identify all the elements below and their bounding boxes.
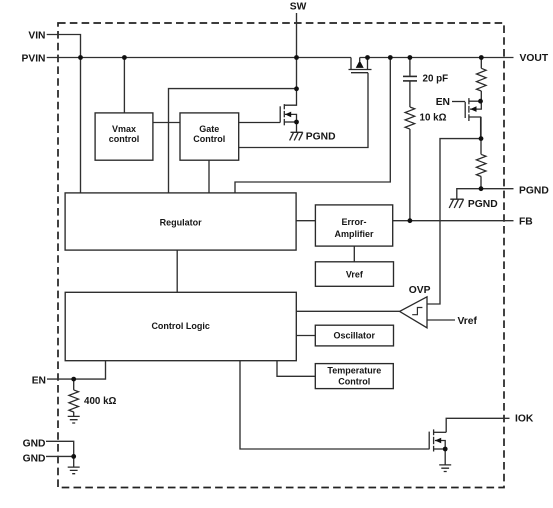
svg-text:VIN: VIN: [28, 31, 45, 42]
svg-text:PGND: PGND: [306, 132, 336, 143]
svg-text:Regulator: Regulator: [160, 218, 203, 228]
svg-text:Gate: Gate: [199, 124, 219, 134]
svg-text:VOUT: VOUT: [520, 53, 549, 64]
svg-text:PGND: PGND: [468, 199, 498, 210]
svg-text:PVIN: PVIN: [21, 53, 45, 64]
svg-text:EN: EN: [32, 375, 46, 386]
svg-text:GND: GND: [23, 453, 46, 464]
svg-text:OVP: OVP: [409, 285, 431, 296]
svg-text:400 kΩ: 400 kΩ: [84, 396, 117, 407]
svg-text:SW: SW: [290, 2, 307, 13]
svg-text:Control: Control: [338, 376, 370, 386]
svg-text:EN: EN: [436, 97, 450, 108]
svg-text:Amplifier: Amplifier: [334, 229, 374, 239]
svg-text:20 pF: 20 pF: [423, 74, 449, 85]
svg-text:Vref: Vref: [346, 270, 364, 280]
svg-text:Control Logic: Control Logic: [151, 321, 210, 331]
svg-text:Vref: Vref: [458, 316, 478, 327]
svg-text:control: control: [109, 134, 140, 144]
svg-text:Error-: Error-: [341, 217, 366, 227]
svg-text:GND: GND: [23, 438, 46, 449]
svg-text:Control: Control: [193, 134, 225, 144]
svg-text:Oscillator: Oscillator: [333, 331, 375, 341]
svg-text:IOK: IOK: [515, 413, 534, 424]
svg-text:FB: FB: [519, 216, 533, 227]
svg-text:Temperature: Temperature: [327, 365, 381, 375]
svg-text:PGND: PGND: [519, 185, 549, 196]
svg-text:Vmax: Vmax: [112, 124, 136, 134]
svg-text:10 kΩ: 10 kΩ: [420, 112, 447, 123]
